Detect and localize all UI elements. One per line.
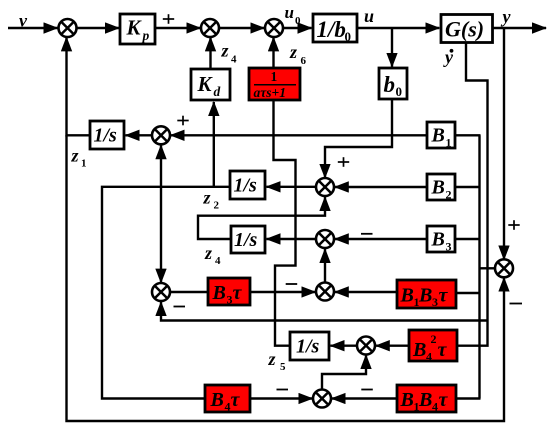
- svg-text:B: B: [212, 282, 226, 304]
- summing junction S2: [201, 19, 219, 37]
- wire B4tau to S10: [250, 397, 312, 399]
- wire S1 to Kp: [76, 27, 119, 29]
- summing junction S10: [313, 390, 331, 408]
- svg-text:B: B: [412, 339, 426, 361]
- wire S3 to 1/b0, node u0: [283, 3, 312, 28]
- wire S6 to 1/s z4: [267, 238, 317, 240]
- block 1/s z4: [231, 226, 265, 253]
- node z2 label: [203, 188, 220, 212]
- svg-text:1/s: 1/s: [296, 336, 320, 358]
- wire z2 branch down to S7 top: [160, 187, 162, 283]
- svg-text:z: z: [221, 41, 229, 61]
- sign plus at S5 top: [338, 157, 349, 167]
- wire z6 up to S3, node z6: [274, 37, 307, 68]
- summing junction S3: [265, 19, 283, 37]
- summing junction S5: [316, 178, 334, 196]
- svg-text:0: 0: [295, 15, 301, 27]
- svg-text:B: B: [210, 389, 224, 411]
- block Kp: [120, 14, 155, 44]
- block B4sqtau red: [409, 330, 457, 364]
- svg-text:1: 1: [271, 69, 278, 84]
- wire collector vertical: [478, 135, 480, 398]
- wire v input: [8, 11, 58, 31]
- svg-text:z: z: [204, 243, 212, 263]
- svg-text:3: 3: [432, 295, 438, 309]
- svg-text:z: z: [203, 188, 211, 208]
- wire branch u down to b0: [391, 28, 393, 67]
- sign minus on B3 wire: [361, 233, 373, 235]
- svg-text:τ: τ: [231, 389, 241, 411]
- wire y output, node y: [493, 7, 547, 29]
- summing junction S1: [59, 19, 77, 37]
- svg-text:K: K: [126, 16, 143, 40]
- sign minus on B3tau wire: [286, 283, 298, 285]
- block 1/s z5: [290, 332, 329, 360]
- wire S4 to 1/s z1: [126, 134, 153, 136]
- svg-text:τ: τ: [233, 282, 243, 304]
- wire S7 to B3tau: [170, 291, 208, 293]
- wire S10 elbow up to S9 bottom: [322, 355, 366, 390]
- wire Kp to S2: [155, 27, 200, 29]
- block B1: [427, 122, 455, 150]
- svg-text:1: 1: [81, 158, 87, 170]
- wire z1 down along left and bottom to S11: [67, 135, 505, 421]
- svg-text:B: B: [431, 229, 445, 251]
- svg-text:4: 4: [426, 350, 432, 364]
- svg-text:4: 4: [231, 54, 237, 66]
- svg-text:z: z: [71, 146, 79, 166]
- svg-text:4: 4: [215, 255, 221, 267]
- summing junction S4: [152, 126, 170, 144]
- block B4tau red: [205, 385, 250, 414]
- wire collector stub to B1B3tau: [456, 292, 480, 294]
- svg-text:v: v: [19, 11, 28, 31]
- svg-text:4: 4: [432, 400, 438, 414]
- sign minus on B4tau wire: [277, 389, 289, 391]
- svg-text:p: p: [142, 28, 150, 43]
- wire collector stub to B3: [455, 238, 480, 240]
- block B1B4tau red: [397, 385, 456, 414]
- svg-text:K: K: [197, 72, 214, 96]
- svg-text:1: 1: [446, 136, 452, 150]
- svg-text:B: B: [400, 389, 414, 411]
- svg-text:3: 3: [446, 240, 452, 254]
- sign minus on B1B4tau wire: [361, 389, 373, 391]
- wire ydot from G(s) down to B4sq tau, node ydot: [443, 43, 488, 346]
- block B3tau red: [208, 278, 250, 307]
- svg-text:1/s: 1/s: [94, 125, 118, 147]
- svg-text:6: 6: [301, 55, 307, 67]
- svg-text:2: 2: [446, 188, 452, 202]
- svg-text:2: 2: [431, 332, 437, 346]
- svg-text:u: u: [364, 6, 374, 26]
- wire collector stub to B1: [455, 134, 481, 136]
- block B3: [427, 226, 455, 254]
- block B1B3tau red: [397, 280, 456, 309]
- svg-text:aτs+1: aτs+1: [254, 85, 286, 100]
- block 1/b0: [313, 14, 357, 44]
- wire S5 to 1/s z2: [267, 186, 317, 188]
- wire collector stub to B2: [455, 186, 480, 188]
- sign plus at S4 right: [177, 116, 188, 126]
- wire z2 branch up to Kd: [213, 102, 215, 187]
- svg-text:τ: τ: [439, 285, 449, 307]
- svg-text:B: B: [431, 125, 445, 147]
- svg-text:5: 5: [280, 361, 286, 373]
- block b0: [379, 68, 407, 99]
- summing junction S6: [316, 230, 334, 248]
- svg-text:b: b: [384, 72, 396, 97]
- wire z2 branch up to S4 bottom: [160, 145, 162, 187]
- wire S8 up to S6 bottom: [324, 249, 326, 283]
- wire ydot branch to S7 bottom: [161, 302, 488, 321]
- svg-text:u: u: [285, 3, 294, 22]
- svg-text:B: B: [418, 389, 432, 411]
- wire S11 output to collector: [480, 267, 496, 269]
- summing junction S8: [316, 283, 334, 301]
- wire z4 wrap up to S5 bottom: [198, 197, 325, 239]
- wire B1B3tau to S8: [335, 291, 397, 293]
- node z5 label: [268, 349, 287, 373]
- wire S9 to 1/s z5: [331, 345, 358, 347]
- block 1/s z1: [90, 121, 124, 149]
- sign plus at S11 top: [508, 220, 519, 230]
- wire B1 to S4: [171, 134, 427, 136]
- sign plus after Kp: [163, 14, 174, 24]
- svg-text:y: y: [501, 7, 512, 27]
- wire y feedback down to S11: [503, 28, 505, 260]
- sign minus at S11 bottom: [510, 303, 523, 305]
- svg-text:z: z: [289, 42, 297, 62]
- svg-text:0: 0: [396, 84, 403, 99]
- svg-text:τ: τ: [439, 389, 449, 411]
- summing junction S11: [495, 259, 513, 277]
- wire u line to G(s), node u: [357, 6, 439, 28]
- wire B2 to S5: [335, 186, 427, 188]
- wire Kd up to S2, node z4: [211, 37, 238, 69]
- svg-text:B: B: [418, 285, 432, 307]
- node z4 row label: [204, 243, 221, 267]
- block 1/s z2: [230, 171, 265, 199]
- svg-text:1/b: 1/b: [317, 17, 346, 42]
- wire B3 to S6: [335, 238, 427, 240]
- wire S2 to S3: [219, 27, 265, 29]
- svg-text:z: z: [268, 349, 276, 369]
- wire z2 out main run to B4tau: [102, 187, 230, 399]
- svg-text:B: B: [431, 177, 445, 199]
- wire B1B4tau to S10: [332, 397, 397, 399]
- svg-text:B: B: [400, 285, 414, 307]
- node z1 label: [71, 146, 87, 170]
- wire collector stub to B1B4tau: [456, 397, 481, 399]
- wire b0 elbow to S5 top: [325, 99, 392, 178]
- block 1/(a tau s+1) red: [249, 68, 300, 100]
- svg-text:d: d: [214, 84, 221, 99]
- summing junction S9: [357, 337, 375, 355]
- wire B4sqtau to S9: [376, 345, 409, 347]
- svg-text:τ: τ: [438, 339, 448, 361]
- svg-text:1/s: 1/s: [234, 229, 258, 251]
- sign minus at S7 bottom: [174, 306, 186, 308]
- wire z1 out left and up to S1: [67, 37, 91, 135]
- block B2: [427, 174, 455, 202]
- svg-text:2: 2: [214, 200, 220, 212]
- svg-text:1/s: 1/s: [234, 175, 258, 197]
- summing junction S7: [152, 283, 170, 301]
- block G(s): [441, 15, 493, 43]
- wire B3tau to S8: [250, 291, 315, 293]
- svg-text:0: 0: [345, 29, 352, 44]
- wire z5 out up to red filter input: [274, 100, 296, 346]
- svg-text:G(s): G(s): [445, 17, 484, 42]
- block Kd: [191, 69, 230, 100]
